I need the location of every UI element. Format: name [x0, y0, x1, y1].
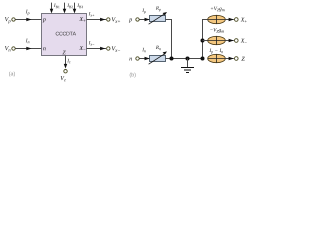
pin n label	[43, 47, 46, 50]
current label In (b)	[142, 48, 145, 52]
label Ip-In	[209, 49, 223, 54]
current label Ix+ (a)	[89, 12, 95, 16]
current source Ip-In (Z)	[208, 54, 226, 62]
current source +VZgm (X+)	[208, 15, 226, 23]
resistor Rn	[149, 46, 167, 64]
current label Ip (a)	[26, 10, 30, 15]
resistor Rp	[149, 6, 167, 24]
wire X- output (a)	[87, 47, 107, 51]
terminal Vx+	[107, 17, 120, 22]
wire Z output (b)	[225, 57, 234, 61]
wire X+ output (b)	[225, 18, 234, 22]
junction ground node	[186, 57, 190, 61]
current label Ip (b)	[142, 9, 145, 14]
wire Rp to ground node	[166, 20, 172, 59]
terminal Vn	[5, 46, 15, 51]
caption (b)	[130, 73, 136, 78]
wire n input (a)	[15, 47, 41, 51]
pin Z label	[62, 51, 65, 55]
junction bus row3	[201, 57, 205, 61]
wire p to Rp	[139, 18, 149, 22]
wire X+ output (a)	[87, 18, 107, 22]
pin p label	[43, 18, 46, 22]
wire n to Rn	[139, 57, 149, 61]
bias arrow IB3	[73, 3, 83, 14]
wire Z output (a)	[64, 56, 68, 69]
terminal p (b)	[129, 18, 139, 23]
ground node wire	[166, 58, 203, 60]
wire X- output (b)	[225, 39, 234, 43]
bias arrow IB2	[63, 3, 73, 14]
pin X- label	[79, 46, 85, 50]
terminal Vx-	[107, 46, 120, 51]
CCCDTA block U1	[42, 14, 87, 56]
bus wire to current sources	[203, 20, 209, 59]
pin X+ label	[79, 17, 85, 22]
label -VZgm	[210, 28, 224, 33]
junction bus row2	[201, 39, 209, 43]
current label Iz (a)	[67, 59, 70, 63]
current label In (a)	[26, 39, 30, 44]
caption (a)	[9, 72, 15, 77]
junction Rp/Rn node	[170, 57, 174, 61]
ground	[181, 59, 194, 73]
label +VZgm	[211, 7, 225, 12]
bias arrow IB1	[50, 3, 60, 14]
terminal Z (b)	[235, 57, 245, 61]
terminal n (b)	[129, 57, 139, 61]
terminal X- (b)	[235, 39, 247, 43]
wire p input (a)	[15, 18, 41, 22]
terminal Vz	[61, 70, 68, 82]
terminal Vp	[5, 17, 15, 23]
terminal X+ (b)	[235, 18, 247, 23]
current source -VZgm (X-)	[208, 36, 226, 44]
current label Ix- (a)	[89, 41, 95, 45]
